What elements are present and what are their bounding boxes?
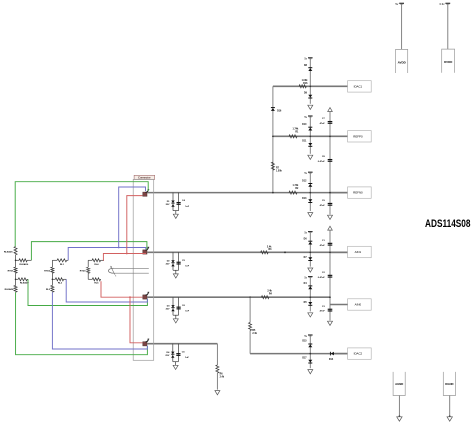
svg-text:C8: C8 — [322, 156, 326, 158]
svg-text:25V: 25V — [166, 204, 170, 206]
resistor RLEAD8 — [14, 285, 17, 292]
ground — [173, 214, 178, 218]
pin 1 — [143, 192, 147, 196]
diode D14 — [331, 352, 334, 356]
TVS diode D1 — [172, 193, 174, 211]
wire — [173, 361, 179, 363]
node junction — [309, 353, 311, 355]
svg-text:2.4k: 2.4k — [267, 290, 272, 293]
diode D8 — [308, 68, 312, 71]
svg-text:3.3v: 3.3v — [439, 2, 445, 6]
power port 3.3v (DVDD rail) — [445, 2, 450, 4]
svg-text:1nF: 1nF — [185, 310, 190, 312]
wire — [173, 210, 179, 212]
svg-text:REFP0: REFP0 — [353, 134, 363, 138]
capacitor C3 — [328, 308, 333, 310]
resistor R6 — [216, 365, 219, 373]
svg-text:RLEAD5: RLEAD5 — [4, 251, 14, 254]
resistor RTD2 — [51, 267, 54, 273]
ground — [328, 321, 333, 325]
svg-text:R2: R2 — [295, 188, 299, 190]
ground — [308, 313, 313, 317]
wire — [329, 112, 331, 215]
svg-text:R5: R5 — [252, 330, 256, 332]
svg-text:47nF: 47nF — [320, 204, 326, 207]
node junction — [329, 135, 331, 137]
svg-text:RLEAD8: RLEAD8 — [5, 288, 15, 291]
capacitor C6 — [177, 344, 179, 362]
resistor RL5 — [88, 278, 92, 280]
wire — [87, 273, 89, 279]
svg-text:5v: 5v — [304, 115, 307, 119]
connector DVDD — [442, 49, 455, 73]
resistor RL1 — [52, 259, 57, 261]
net label REFN0 — [348, 187, 372, 198]
svg-text:D1: D1 — [167, 201, 171, 203]
diode D15 — [308, 345, 312, 348]
svg-text:C3: C3 — [322, 306, 326, 308]
node junction — [118, 247, 120, 249]
wire green lead 1 — [15, 182, 148, 247]
svg-text:47nF: 47nF — [320, 310, 326, 313]
svg-text:AIN1: AIN1 — [355, 250, 362, 254]
wire AIN1 — [147, 251, 347, 253]
svg-text:R16: R16 — [303, 83, 308, 85]
svg-text:RL1: RL1 — [60, 264, 65, 266]
resistor RL2 — [52, 278, 55, 280]
svg-text:5v: 5v — [304, 57, 307, 61]
svg-text:RLEAD7: RLEAD7 — [20, 282, 30, 285]
svg-text:D9: D9 — [304, 92, 308, 94]
pin 2 — [143, 250, 147, 254]
capacitor C4 — [178, 193, 180, 211]
wire REFP0 — [273, 135, 348, 137]
node junction — [126, 253, 128, 255]
svg-text:D5: D5 — [304, 302, 308, 304]
TVS diode D4 — [172, 344, 174, 362]
arrow input bias — [328, 226, 333, 230]
svg-text:D4: D4 — [304, 282, 308, 285]
ground — [308, 370, 313, 374]
net label AIN0 — [348, 299, 372, 310]
wire pin4 — [147, 343, 217, 345]
resistor RTD3 — [87, 267, 90, 273]
node junction — [309, 192, 311, 194]
svg-text:5v: 5v — [395, 2, 399, 6]
wire — [51, 273, 53, 285]
wire green lead 3 — [28, 279, 147, 305]
power 5v (row REFN0) — [308, 171, 313, 173]
wire red lead 2 — [101, 281, 142, 297]
svg-text:1nF: 1nF — [185, 206, 190, 208]
wire blue lead 3 — [52, 292, 147, 349]
power port 5v (AVDD rail) — [399, 2, 404, 4]
svg-text:C5: C5 — [182, 260, 186, 262]
svg-text:1nF: 1nF — [185, 266, 190, 268]
svg-text:D12: D12 — [302, 181, 307, 183]
svg-text:AIN0: AIN0 — [355, 303, 362, 307]
diode D4 — [308, 286, 312, 289]
diode D12 — [308, 184, 312, 187]
svg-text:IDAC2: IDAC2 — [354, 352, 363, 356]
node junction — [129, 296, 131, 298]
resistor RL3 — [51, 285, 54, 292]
svg-text:D14: D14 — [329, 358, 334, 361]
diode D17 — [309, 354, 311, 369]
node junction — [309, 251, 311, 253]
wire — [398, 396, 400, 416]
svg-text:DGND: DGND — [445, 382, 454, 386]
ground — [308, 213, 313, 217]
wire — [173, 314, 179, 316]
wire IDAC1 — [273, 85, 348, 87]
ground — [173, 365, 178, 369]
svg-text:C9: C9 — [322, 200, 326, 202]
svg-text:D10: D10 — [302, 124, 307, 126]
wire — [15, 273, 17, 285]
svg-text:0.47uF: 0.47uF — [318, 276, 326, 279]
svg-text:C7: C7 — [322, 118, 326, 120]
svg-text:2.4k: 2.4k — [267, 245, 272, 248]
svg-text:5v: 5v — [304, 230, 307, 234]
svg-text:47nF: 47nF — [320, 244, 326, 247]
svg-text:t: t — [115, 274, 116, 277]
wire — [15, 255, 17, 267]
diode D13 — [309, 193, 311, 211]
svg-text:AGND: AGND — [395, 382, 404, 386]
wire blue lead 1 — [68, 248, 146, 261]
wire blue lead 2 — [66, 279, 147, 302]
ground — [308, 155, 313, 159]
svg-text:RL2: RL2 — [58, 283, 63, 285]
ground — [173, 274, 178, 278]
TVS diode D3 — [172, 297, 174, 315]
wire — [309, 58, 311, 86]
svg-text:R1: R1 — [295, 132, 299, 134]
svg-text:1.50k: 1.50k — [276, 170, 282, 172]
connector J1 label — [134, 175, 155, 179]
svg-text:1.74k: 1.74k — [293, 128, 299, 131]
svg-text:5v: 5v — [304, 275, 307, 279]
svg-text:47nF: 47nF — [320, 122, 326, 125]
svg-text:25V: 25V — [166, 264, 170, 266]
RTD probe — [108, 268, 113, 273]
wire green lead 4 — [16, 292, 148, 354]
svg-text:D11: D11 — [302, 140, 307, 142]
node junction — [309, 85, 311, 87]
capacitor C7 — [328, 121, 333, 123]
svg-text:D7: D7 — [304, 257, 308, 259]
svg-text:1.74k: 1.74k — [293, 184, 299, 187]
svg-text:R4: R4 — [269, 292, 273, 295]
node junction — [309, 135, 311, 137]
ground — [215, 391, 220, 395]
net label IDAC1 — [348, 81, 372, 92]
resistor RLEAD5 — [14, 247, 17, 255]
wire — [330, 304, 348, 306]
power 5v (row AIN1) — [308, 231, 313, 233]
svg-text:C4: C4 — [182, 199, 186, 202]
svg-text:5v: 5v — [304, 171, 307, 175]
resistor RLEAD7 — [16, 278, 19, 280]
resistor R1 — [289, 135, 297, 138]
diode D10 — [308, 128, 312, 131]
connector DGND — [443, 372, 455, 396]
svg-text:C6: C6 — [182, 305, 186, 307]
node junction — [309, 296, 311, 298]
svg-text:IDAC1: IDAC1 — [354, 85, 363, 89]
svg-text:D6: D6 — [304, 238, 308, 240]
svg-text:RTD2: RTD2 — [44, 271, 50, 273]
capacitor C9 — [328, 202, 333, 204]
net label IDAC2 — [348, 348, 372, 359]
pin 4 — [143, 342, 147, 346]
wire — [335, 353, 348, 355]
wire — [309, 277, 311, 297]
svg-text:0.47uF: 0.47uF — [318, 160, 326, 163]
resistor R16 — [299, 85, 306, 88]
ground — [308, 105, 313, 109]
capacitor C6 — [178, 297, 180, 315]
capacitor C5 — [178, 252, 180, 270]
resistor RTD1 — [14, 267, 17, 273]
wire red lead 1b — [127, 196, 143, 254]
wire — [330, 192, 348, 194]
ground DGND — [449, 415, 451, 417]
resistor R2 — [289, 191, 297, 194]
svg-text:RTD3: RTD3 — [80, 271, 86, 273]
svg-text:D2: D2 — [167, 261, 171, 263]
svg-text:D13: D13 — [302, 198, 307, 200]
node junction — [52, 279, 54, 281]
svg-text:REFN0: REFN0 — [353, 191, 363, 195]
ground — [328, 215, 333, 219]
connector AVDD — [396, 49, 408, 73]
wire — [173, 269, 179, 271]
wire red lead 2b — [130, 297, 142, 343]
resistor R4 — [261, 296, 269, 299]
wire — [329, 230, 331, 321]
wire — [447, 4, 449, 49]
resistor R5 — [249, 297, 251, 322]
svg-text:ADS114S08: ADS114S08 — [425, 218, 471, 230]
wire — [309, 232, 311, 252]
svg-text:25V: 25V — [166, 309, 170, 311]
wire IDAC2 — [250, 353, 348, 355]
resistor RL4 — [88, 259, 92, 261]
svg-text:D15: D15 — [302, 341, 307, 343]
wire AIN0 — [147, 296, 330, 298]
wire red lead 1 — [103, 254, 146, 262]
wire — [51, 260, 53, 267]
svg-text:D3: D3 — [167, 306, 171, 308]
svg-text:2.4k: 2.4k — [252, 332, 257, 335]
svg-text:1.00k: 1.00k — [302, 80, 308, 82]
wire — [449, 396, 451, 416]
wire — [309, 336, 311, 354]
power 5v (row AIN0) — [308, 276, 313, 278]
resistor R3 — [261, 251, 269, 254]
svg-text:D8: D8 — [304, 65, 308, 67]
svg-text:C6: C6 — [182, 351, 186, 353]
ground — [173, 319, 178, 323]
svg-text:C1: C1 — [322, 240, 326, 242]
wire — [216, 344, 218, 365]
capacitor C1 — [328, 242, 333, 244]
wire — [272, 86, 274, 192]
capacitor C2 — [328, 274, 333, 276]
resistor R7 — [271, 162, 274, 170]
svg-text:DVDD: DVDD — [444, 60, 453, 64]
TVS diode D2 — [172, 252, 174, 270]
wire — [330, 251, 348, 253]
svg-text:D16: D16 — [277, 110, 282, 112]
power 5v (row REFP0) — [308, 115, 313, 117]
wire — [87, 260, 89, 267]
ground — [308, 268, 313, 272]
diode D5 — [309, 297, 311, 311]
wire — [309, 117, 311, 137]
svg-text:RLEAD6: RLEAD6 — [19, 263, 29, 266]
svg-text:1nF: 1nF — [185, 357, 190, 359]
svg-text:2.4k: 2.4k — [220, 376, 225, 379]
wire — [309, 173, 311, 193]
svg-text:RL4: RL4 — [94, 263, 99, 266]
node junction — [15, 260, 17, 262]
connector AGND — [393, 372, 405, 396]
svg-text:R7: R7 — [276, 167, 280, 169]
capacitor C8 — [328, 159, 333, 161]
diode D11 — [309, 136, 311, 154]
diode D16 — [271, 108, 275, 111]
svg-text:AVDD: AVDD — [398, 60, 407, 64]
svg-text:RTD1: RTD1 — [8, 271, 14, 273]
diode D9 — [309, 86, 311, 104]
wire REFN0 — [147, 192, 347, 194]
wire green lead 2 — [31, 242, 146, 261]
net label AIN1 — [348, 246, 372, 257]
power 5v (row IDAC1) — [308, 57, 313, 59]
connector J1 body — [133, 179, 154, 360]
pin 3 — [143, 295, 147, 299]
svg-text:R3: R3 — [268, 249, 272, 251]
arrow REFOUT — [328, 108, 333, 112]
wire blue lead 1b — [119, 187, 146, 248]
power 5v (row IDAC2) — [308, 334, 313, 336]
svg-text:R6: R6 — [220, 374, 224, 376]
ground AGND — [399, 415, 401, 417]
net label REFP0 — [348, 131, 372, 142]
diode D7 — [309, 252, 311, 266]
svg-text:D4: D4 — [167, 351, 171, 354]
svg-text:RL5: RL5 — [94, 283, 99, 285]
svg-text:25V: 25V — [165, 355, 169, 357]
resistor RLEAD6 — [16, 259, 19, 261]
svg-text:C2: C2 — [322, 272, 326, 274]
svg-text:D17: D17 — [302, 358, 307, 360]
svg-text:5v: 5v — [304, 334, 307, 338]
node junction — [329, 251, 331, 253]
diode D6 — [308, 242, 312, 245]
svg-text:RL3: RL3 — [46, 289, 51, 291]
wire — [401, 4, 403, 49]
